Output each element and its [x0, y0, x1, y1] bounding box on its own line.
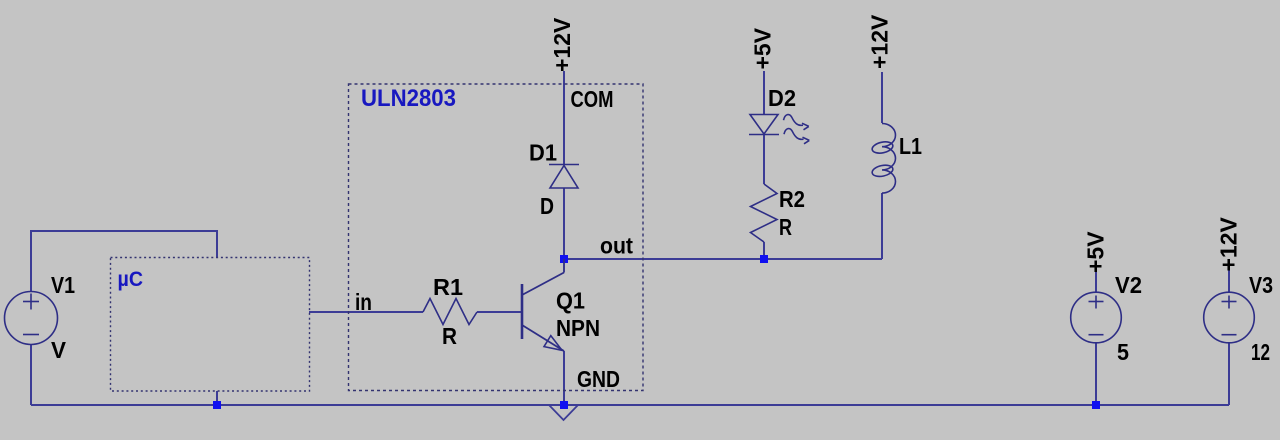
resistor R1 [423, 299, 477, 325]
svg-text:+12V: +12V [549, 17, 575, 72]
svg-text:in: in [355, 289, 372, 315]
wire ground rail [31, 404, 1229, 406]
microcontroller box uC [111, 258, 310, 392]
svg-text:R1: R1 [433, 274, 463, 300]
voltage source V1 [5, 292, 58, 345]
resistor R2 [751, 184, 778, 242]
svg-text:V3: V3 [1249, 272, 1273, 298]
wire uC ground stub [216, 391, 218, 405]
wire +5V to D2 [763, 71, 765, 115]
svg-text:+5V: +5V [750, 27, 776, 69]
wire V1 bottom [30, 345, 32, 405]
LED D2 [749, 115, 809, 144]
transistor Q1 [522, 259, 564, 351]
junction node uC/ground [213, 401, 221, 409]
svg-text:V: V [51, 337, 67, 363]
svg-text:+12V: +12V [1216, 216, 1242, 271]
wire V3 bottom [1228, 343, 1230, 405]
inductor L1 [871, 124, 895, 194]
diode D1 [549, 165, 579, 189]
junction node out/D1 [560, 255, 568, 263]
voltage source V3 [1204, 292, 1255, 343]
svg-text:R: R [779, 214, 792, 240]
svg-text:+12V: +12V [867, 14, 893, 69]
svg-text:12: 12 [1251, 339, 1270, 365]
svg-text:Q1: Q1 [556, 288, 585, 314]
svg-text:+5V: +5V [1083, 231, 1109, 273]
wire D2 to R2 [763, 135, 765, 184]
svg-text:NPN: NPN [556, 315, 600, 341]
ground symbol [549, 405, 578, 420]
wire in net [309, 311, 423, 313]
svg-text:V1: V1 [51, 272, 75, 298]
svg-text:ULN2803: ULN2803 [361, 85, 456, 112]
svg-text:GND: GND [577, 366, 620, 392]
wire R2 to out [763, 242, 765, 259]
wire V1 top to uC [31, 231, 217, 291]
wire Q1 emitter to ground [563, 351, 565, 405]
wire V2 bottom [1095, 343, 1097, 405]
wire V2 top [1095, 271, 1097, 293]
junction node V2/ground [1092, 401, 1100, 409]
wire V3 top [1228, 270, 1230, 293]
wire R1 to Q1 base [477, 311, 522, 313]
wire +12V to L1 [881, 72, 883, 123]
voltage source V2 [1071, 292, 1122, 343]
wire COM supply [563, 71, 565, 164]
svg-text:out: out [600, 233, 633, 259]
svg-text:D1: D1 [529, 140, 557, 166]
svg-text:V2: V2 [1115, 272, 1142, 298]
svg-text:D2: D2 [768, 85, 796, 111]
svg-text:5: 5 [1117, 339, 1129, 365]
svg-text:R: R [442, 323, 457, 349]
svg-text:D: D [540, 193, 554, 219]
IC box ULN2803 [349, 84, 644, 391]
svg-text:R2: R2 [779, 186, 805, 212]
wire D1 to out [563, 188, 565, 259]
junction node out/R2 [760, 255, 768, 263]
wire L1 to out [881, 193, 883, 259]
svg-text:µC: µC [118, 268, 144, 291]
svg-text:COM: COM [571, 86, 614, 112]
wire out net [564, 258, 882, 260]
svg-text:L1: L1 [899, 133, 922, 159]
junction node GND/emitter [560, 401, 568, 409]
